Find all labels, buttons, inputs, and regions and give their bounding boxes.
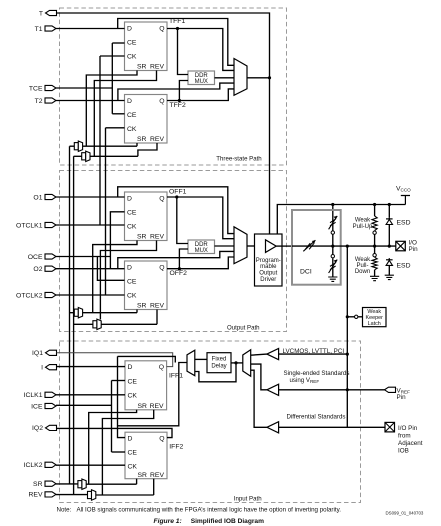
wire OFF1 Q to mux xyxy=(167,197,234,239)
wire TFF1 Q to DDR MUX xyxy=(178,29,189,75)
flip-flop TFF1 xyxy=(125,18,186,71)
svg-text:D: D xyxy=(128,436,133,443)
svg-text:Adjacent: Adjacent xyxy=(398,440,423,447)
wire DDR MUX out to mux xyxy=(215,77,235,79)
pad SR xyxy=(33,481,56,488)
wire mux2 out to driver xyxy=(247,245,255,247)
wire DCI upper lead xyxy=(332,217,334,231)
wire Vcco rail xyxy=(277,205,405,235)
svg-text:Output Path: Output Path xyxy=(227,325,260,332)
flip-flop TFF2 xyxy=(125,95,186,144)
polarity mux REV (output) xyxy=(93,319,101,329)
junction TFF2 Q xyxy=(178,99,181,102)
pad I xyxy=(41,365,56,372)
I/O pin pad xyxy=(396,241,406,251)
wire mux2in to delay xyxy=(231,362,243,364)
wire TCE xyxy=(56,87,112,89)
wire buffer3 out xyxy=(251,370,267,427)
wire pull-down to ground xyxy=(374,270,376,277)
svg-text:ICLK2: ICLK2 xyxy=(24,462,43,469)
svg-text:Pin: Pin xyxy=(409,246,419,253)
pad T1 xyxy=(35,26,56,33)
svg-text:SR: SR xyxy=(137,234,147,241)
mux (output select) xyxy=(234,227,247,264)
svg-text:REV: REV xyxy=(150,472,164,479)
svg-text:REV: REV xyxy=(150,64,164,71)
wire ICLK1 xyxy=(56,394,125,396)
svg-text:ICE: ICE xyxy=(31,403,43,410)
polarity mux REV (input) xyxy=(88,490,96,500)
svg-text:O2: O2 xyxy=(33,266,42,273)
mux (three-state select) xyxy=(234,59,247,96)
flip-flop IFF1 xyxy=(125,361,183,410)
svg-text:CE: CE xyxy=(128,378,138,385)
wire OTCLK1 to OFF1 CK xyxy=(56,224,125,226)
polarity mux SR (output) xyxy=(74,308,82,318)
wire IO net xyxy=(292,245,396,247)
svg-text:ESD: ESD xyxy=(397,220,411,227)
wire IFF2 SR xyxy=(136,479,138,485)
wire SR bus tap xyxy=(70,145,75,147)
buffer LVCMOS xyxy=(267,349,279,360)
wire rail to ESD1 xyxy=(388,205,390,218)
wire IFF2 REV xyxy=(153,479,155,495)
svg-text:Q: Q xyxy=(159,364,164,371)
wire rail to pull-up xyxy=(374,205,376,217)
svg-text:Input Path: Input Path xyxy=(234,495,262,502)
svg-text:IFF1: IFF1 xyxy=(169,373,183,380)
wire OFF2 REV xyxy=(156,310,158,325)
pad O2 xyxy=(33,266,56,273)
wire TFF2 SR xyxy=(136,143,138,146)
wire OTCLK1 to TFF1 CK xyxy=(100,55,125,57)
variable resistor DCI upper xyxy=(329,216,338,229)
wire TFF2 Q to DDR MUX xyxy=(179,81,188,101)
ground DCI xyxy=(328,277,337,281)
svg-text:T1: T1 xyxy=(35,26,43,33)
wire I net riser xyxy=(118,356,176,362)
svg-text:SR: SR xyxy=(138,472,148,479)
svg-text:D: D xyxy=(127,25,132,32)
wire rail to DCI resistor 1 xyxy=(332,205,334,218)
svg-text:T2: T2 xyxy=(35,98,43,105)
junction TFF1 Q xyxy=(176,27,179,30)
svg-text:Q: Q xyxy=(159,264,164,271)
wire ICE to IFF2 CE xyxy=(112,451,126,453)
wire TCE to TFF1 CE xyxy=(112,42,124,44)
svg-text:Differential Standards: Differential Standards xyxy=(287,414,346,421)
svg-text:from: from xyxy=(398,433,411,440)
svg-text:Weak: Weak xyxy=(355,218,371,224)
svg-text:REV: REV xyxy=(150,136,164,143)
svg-text:CK: CK xyxy=(127,224,137,231)
wire IFF1 REV xyxy=(102,410,153,495)
input mux (delay select) xyxy=(187,350,195,376)
wire T1 bypass to mux xyxy=(118,19,234,66)
DDR MUX (output) xyxy=(188,240,215,254)
pad REV xyxy=(29,492,56,499)
svg-text:IQ2: IQ2 xyxy=(32,425,43,432)
flip-flop OFF1 xyxy=(125,188,187,240)
svg-text:CE: CE xyxy=(127,210,137,217)
programmable connection pull-up xyxy=(373,231,376,234)
svg-text:CK: CK xyxy=(127,54,137,61)
svg-text:REV: REV xyxy=(150,234,164,241)
wire OTCLK2 riser xyxy=(105,128,107,295)
wire REV pad wire xyxy=(56,494,88,496)
wire OFF2 SR xyxy=(136,310,138,313)
svg-text:Pin: Pin xyxy=(397,394,407,401)
svg-text:CK: CK xyxy=(127,293,137,300)
svg-text:SR: SR xyxy=(33,481,43,488)
svg-text:OCE: OCE xyxy=(28,254,43,261)
fixed delay box xyxy=(207,353,231,373)
wire OFF1 Q to DDR MUX xyxy=(177,197,188,244)
svg-text:MUX: MUX xyxy=(195,248,208,254)
svg-text:TFF2: TFF2 xyxy=(170,102,186,109)
svg-text:Delay: Delay xyxy=(211,363,226,369)
wire DCI upper to net xyxy=(332,235,334,247)
pad ICLK2 xyxy=(24,462,56,469)
flip-flop OFF2 xyxy=(125,261,188,310)
wire SR bus xyxy=(69,146,71,484)
pad IQ1 xyxy=(32,350,56,357)
programmable connection keeper xyxy=(355,315,358,318)
junction buffer1 in xyxy=(346,353,349,356)
svg-text:CE: CE xyxy=(127,40,137,47)
wire buffer1 in xyxy=(279,353,347,355)
wire T2 bypass to mux xyxy=(118,83,234,100)
wire I to IFF1 D xyxy=(57,366,126,368)
wire TFF1 REV xyxy=(94,71,156,157)
svg-text:Down: Down xyxy=(355,269,370,275)
junction rail pull-up xyxy=(373,203,376,206)
input mux (standards merge) xyxy=(243,350,251,377)
svg-text:Q: Q xyxy=(159,436,164,443)
pad TCE xyxy=(29,85,56,92)
svg-text:OTCLK1: OTCLK1 xyxy=(16,222,43,229)
svg-text:Program-: Program- xyxy=(256,258,281,264)
figure caption xyxy=(154,518,265,525)
wire OCE xyxy=(56,256,110,258)
wire REV mux out xyxy=(90,155,138,157)
svg-text:IFF2: IFF2 xyxy=(169,444,183,451)
pad OTCLK2 xyxy=(16,292,56,299)
svg-text:OFF2: OFF2 xyxy=(170,270,188,277)
wire OTCLK2 to OFF2 CK xyxy=(56,294,125,296)
junction DCI net xyxy=(331,245,334,248)
wire TCE vertical xyxy=(111,43,113,114)
junction buffer2 in xyxy=(346,388,349,391)
junction mux out T xyxy=(268,76,271,79)
svg-text:TCE: TCE xyxy=(29,85,43,92)
I/O pin adjacent IOB pad xyxy=(385,422,395,432)
wire buffer2 in VREF xyxy=(279,389,385,391)
wire SR mux3 out xyxy=(86,483,136,485)
DCI inline impedance symbol xyxy=(303,240,315,251)
junction net ESD xyxy=(388,245,391,248)
wire IFF1 SR xyxy=(89,410,137,484)
wire OFF1 REV xyxy=(100,241,156,320)
svg-text:D: D xyxy=(127,98,132,105)
wire SR pad wire xyxy=(56,483,78,485)
svg-text:Output: Output xyxy=(259,271,277,277)
wire buffer3 in xyxy=(279,426,385,428)
polarity mux REV (three-state) xyxy=(82,151,90,161)
svg-text:Pull-Up: Pull-Up xyxy=(353,224,373,230)
wire net to pull-down xyxy=(374,246,376,253)
svg-text:CK: CK xyxy=(128,392,138,399)
wire input mux out xyxy=(118,363,188,426)
svg-text:DS099_01_040703: DS099_01_040703 xyxy=(386,511,424,516)
junction delay bypass xyxy=(234,361,237,364)
wire delay bypass xyxy=(195,363,236,382)
svg-text:SR: SR xyxy=(137,64,147,71)
power symbol Vcco xyxy=(401,196,410,205)
junction keeper xyxy=(346,315,349,318)
DDR MUX (three-state) xyxy=(188,71,215,85)
svg-text:REV: REV xyxy=(29,492,43,499)
pad T xyxy=(39,10,57,17)
wire IQ2 xyxy=(57,428,173,437)
junction rail DCI xyxy=(331,203,334,206)
pad IQ2 xyxy=(32,425,56,432)
ESD diode upper xyxy=(386,217,393,246)
wire TFF1 Q to mux xyxy=(167,29,234,71)
svg-text:IQ1: IQ1 xyxy=(32,350,43,357)
ESD diode lower xyxy=(386,258,393,268)
three-state path boundary xyxy=(60,8,287,165)
ground pull-down xyxy=(370,276,379,280)
driver buffer triangle xyxy=(266,240,277,253)
junction OFF1 Q xyxy=(175,195,178,198)
svg-text:ESD: ESD xyxy=(397,263,411,270)
wire T to driver tristate xyxy=(57,13,270,234)
wire TCE to TFF2 CE xyxy=(112,113,124,115)
input path boundary xyxy=(60,341,361,503)
svg-text:CE: CE xyxy=(127,279,137,286)
svg-text:Single-ended Standards: Single-ended Standards xyxy=(284,370,350,377)
wire O2 to OFF2 D xyxy=(56,268,125,270)
svg-text:REV: REV xyxy=(150,303,164,310)
wire T2 to TFF2 D xyxy=(56,100,125,102)
svg-text:O1: O1 xyxy=(33,194,42,201)
svg-text:CK: CK xyxy=(128,464,138,471)
resistor weak pull-up xyxy=(372,216,377,231)
svg-text:T: T xyxy=(39,10,43,17)
pad OTCLK1 xyxy=(16,222,56,229)
junction OFF2 Q xyxy=(178,267,181,270)
wire REV mux3 out xyxy=(96,494,154,496)
programmable connection upper xyxy=(331,231,334,234)
svg-text:D: D xyxy=(127,195,132,202)
programmable connection lower xyxy=(331,255,334,258)
output path boundary xyxy=(60,171,287,332)
svg-text:Q: Q xyxy=(159,25,164,32)
buffer differential xyxy=(267,422,279,433)
wire DCI lower lead1 xyxy=(332,246,334,254)
wire REV bus tap xyxy=(74,155,82,157)
wire REV bus xyxy=(73,156,75,494)
svg-text:OFF1: OFF1 xyxy=(169,188,187,195)
svg-text:ICLK1: ICLK1 xyxy=(24,392,43,399)
junction pad net xyxy=(346,245,349,248)
wire O2 bypass to mux xyxy=(118,251,234,268)
svg-text:SR: SR xyxy=(137,303,147,310)
weak keeper latch box xyxy=(363,308,387,327)
svg-text:SR: SR xyxy=(138,403,148,410)
wire OTCLK2 to TFF2 CK xyxy=(106,127,125,129)
variable resistor DCI lower xyxy=(329,260,338,273)
svg-text:Figure 1:: Figure 1: xyxy=(154,518,182,525)
svg-text:OTCLK2: OTCLK2 xyxy=(16,292,43,299)
svg-text:CE: CE xyxy=(127,112,137,119)
wire OFF2 Q to mux xyxy=(167,257,234,269)
svg-text:REV: REV xyxy=(150,403,164,410)
wire SR mux2 out xyxy=(83,312,137,314)
wire ICE xyxy=(56,404,112,406)
junction net pull-up xyxy=(373,245,376,248)
svg-text:Latch: Latch xyxy=(368,321,381,327)
pad OCE xyxy=(28,254,56,261)
wire mux out to T line xyxy=(247,77,270,79)
svg-text:I: I xyxy=(41,365,43,372)
svg-text:Simplified IOB Diagram: Simplified IOB Diagram xyxy=(191,518,264,525)
svg-text:Driver: Driver xyxy=(260,277,276,283)
wire REV mux2 out xyxy=(101,323,157,325)
wire OCE riser CE1 xyxy=(110,212,124,269)
svg-text:D: D xyxy=(128,364,133,371)
junction rail ESD1 xyxy=(388,203,391,206)
pad ICE xyxy=(31,403,56,410)
svg-text:D: D xyxy=(127,264,132,271)
wire OFF1 SR xyxy=(93,241,137,313)
polarity mux SR (three-state) xyxy=(74,141,82,151)
pad T2 xyxy=(35,98,56,105)
svg-text:mable: mable xyxy=(260,264,277,270)
wire SR bus tap2 xyxy=(70,312,75,314)
svg-text:DCI: DCI xyxy=(300,269,312,276)
resistor weak pull-down xyxy=(372,257,377,270)
wire OCE drop CE2 xyxy=(97,257,124,281)
programmable connection pull-down xyxy=(373,254,376,257)
wire OFF2 Q to DDR MUX xyxy=(179,249,188,269)
wire to weak keeper xyxy=(347,316,362,318)
wire REV bus tap2 xyxy=(74,323,93,325)
svg-text:SR: SR xyxy=(137,136,147,143)
svg-text:IOB: IOB xyxy=(398,448,409,455)
svg-text:CK: CK xyxy=(127,126,137,133)
pad O1 xyxy=(33,194,56,201)
wire ICLK2 xyxy=(56,464,125,466)
wire TFF1 SR xyxy=(86,71,137,147)
svg-text:Fixed: Fixed xyxy=(212,357,227,363)
wire O1 to OFF1 D xyxy=(56,196,125,198)
svg-text:CE: CE xyxy=(128,450,138,457)
svg-text:Q: Q xyxy=(159,195,164,202)
wire O1 bypass to mux xyxy=(118,187,234,234)
wire SR mux out xyxy=(83,145,137,147)
wire ICE to IFF1 CE xyxy=(112,380,126,382)
polarity mux SR (input) xyxy=(78,479,86,489)
wire pad net down xyxy=(346,246,348,427)
wire delay out to mux xyxy=(195,358,207,360)
wire driver out to DCI xyxy=(276,245,292,247)
wire pull-up to net xyxy=(374,234,376,246)
DCI box xyxy=(292,210,341,285)
wire T1 to TFF1 D xyxy=(56,28,125,30)
wire input data trunk xyxy=(118,356,126,437)
pad ICLK1 xyxy=(24,392,56,399)
svg-text:Q: Q xyxy=(159,98,164,105)
ground ESD2 xyxy=(385,275,394,279)
buffer single-ended VREF xyxy=(267,384,279,395)
svg-text:I/O Pin: I/O Pin xyxy=(398,425,418,432)
wire ICE vertical xyxy=(111,381,113,453)
svg-text:Three-state Path: Three-state Path xyxy=(216,155,261,162)
pad VREF xyxy=(385,387,396,392)
wire TFF2 REV xyxy=(138,143,157,156)
flip-flop IFF2 xyxy=(125,432,183,479)
wire buffer1 out xyxy=(251,354,267,355)
wire IQ1 xyxy=(57,353,173,367)
wire TFF2 Q to mux xyxy=(167,89,234,101)
svg-text:Note: All IOB signals commun: Note: All IOB signals communicating with… xyxy=(57,507,342,514)
wire ESD2 stub xyxy=(388,269,390,276)
programmable output driver box xyxy=(255,234,283,286)
wire DDR MUX2 out to mux xyxy=(215,245,235,247)
wire buffer2 out xyxy=(251,364,267,390)
wire DCI lower lead2 xyxy=(332,258,334,276)
svg-text:MUX: MUX xyxy=(195,79,208,85)
wire OTCLK1 riser xyxy=(99,56,101,225)
